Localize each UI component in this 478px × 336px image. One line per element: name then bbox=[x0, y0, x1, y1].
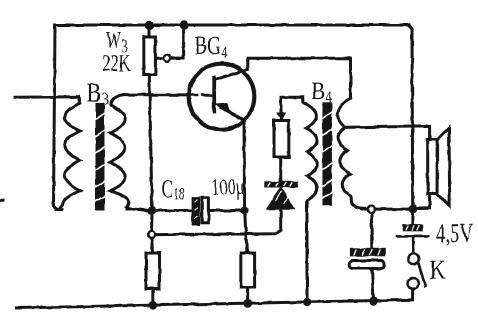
wire terminal to right rail bbox=[375, 208, 409, 211]
node terminal open circle bbox=[368, 206, 375, 213]
transistor BG4 base bar bbox=[212, 78, 216, 112]
potentiometer W3 body bbox=[148, 29, 151, 37]
capacitor C18 left plate bbox=[192, 198, 199, 225]
battery cell long plate bbox=[397, 235, 428, 238]
transformer B3 secondary winding bbox=[110, 95, 130, 209]
wire right rail vertical bbox=[409, 25, 413, 207]
node right rail junction dot bbox=[409, 205, 418, 214]
wire resistor to diode bbox=[279, 157, 282, 181]
wire emitter node down bbox=[245, 214, 247, 253]
label 100u bbox=[213, 179, 244, 199]
wire speaker top lead bbox=[345, 126, 430, 139]
switch K lever bbox=[418, 263, 425, 287]
node rail dot capacitor bbox=[369, 297, 378, 306]
wire B4 secondary bottom lead bbox=[306, 206, 309, 303]
wire speaker bottom lead bbox=[416, 194, 430, 209]
label C18 bbox=[162, 180, 184, 199]
label K bbox=[430, 261, 445, 279]
switch K upper contact bbox=[408, 253, 419, 264]
wire electrolytic bottom lead bbox=[372, 269, 374, 302]
node open circle on bias branch bbox=[148, 231, 155, 238]
wire C18 right bbox=[209, 209, 241, 212]
transistor BG4 emitter lead with arrow bbox=[221, 108, 245, 208]
transformer B3 primary winding bbox=[56, 104, 80, 210]
speaker cone bbox=[437, 128, 450, 206]
label BG4 bbox=[195, 37, 227, 58]
wire switch to bottom rail bbox=[411, 289, 414, 300]
wire B3 secondary bottom to bias node bbox=[127, 209, 148, 211]
wire B4 bottom to terminal bbox=[362, 207, 368, 210]
wire C18 left bbox=[156, 209, 192, 212]
node rail dot left bbox=[148, 301, 157, 310]
capacitor C18 right plate bbox=[202, 198, 209, 223]
wire to bottom rail bbox=[246, 287, 249, 303]
wire bias node down bbox=[152, 214, 153, 253]
capacitor electrolytic bottom plate bbox=[349, 261, 384, 269]
resistor bias (middle) body bbox=[274, 121, 289, 158]
node emitter junction dot bbox=[241, 207, 249, 215]
battery cell short bar bbox=[411, 213, 414, 225]
wire battery to switch bbox=[412, 238, 415, 253]
node rail dot B4 bbox=[303, 298, 312, 307]
label 22K bbox=[103, 55, 130, 71]
wire input line bbox=[15, 97, 80, 104]
wire bottom ground rail bbox=[16, 300, 413, 308]
transistor BG4 circle bbox=[189, 64, 255, 130]
label B3 bbox=[87, 84, 108, 105]
transformer B4 primary (right) winding bbox=[338, 98, 362, 209]
wire electrolytic top lead bbox=[370, 213, 373, 249]
wire base lead bbox=[124, 93, 188, 96]
wire collector top horizontal bbox=[247, 58, 350, 98]
wire top supply rail bbox=[55, 24, 409, 27]
wire bracket from resistor to B4 bbox=[281, 97, 303, 120]
label B4 bbox=[312, 83, 332, 102]
transistor BG4 collector lead bbox=[216, 60, 248, 80]
node top rail dot at W3 bbox=[145, 21, 154, 30]
diode cathode bar bbox=[265, 182, 297, 187]
diode triangle bbox=[267, 188, 294, 209]
wire left vertical branch bbox=[54, 27, 63, 210]
node wiper contact circle bbox=[164, 55, 171, 62]
wire margin tick bbox=[0, 199, 3, 202]
capacitor electrolytic top plate bbox=[351, 249, 385, 256]
transformer B4 secondary (left) winding bbox=[303, 102, 317, 206]
switch K lower contact bbox=[408, 278, 419, 289]
node bias junction dot bbox=[148, 206, 156, 214]
resistor lower-left body bbox=[146, 253, 160, 289]
label W3 bbox=[106, 32, 127, 52]
transformer B4 core bbox=[322, 107, 332, 201]
node top rail dot 2 bbox=[179, 21, 188, 30]
wire diode bottom lead bbox=[155, 209, 281, 235]
label 4.5V bbox=[436, 224, 473, 246]
node rail dot emitter bbox=[243, 299, 252, 308]
potentiometer W3 wiper wire bbox=[157, 29, 184, 58]
wire resistor to bottom rail bbox=[151, 289, 154, 305]
speaker coil rectangle bbox=[428, 139, 437, 194]
resistor emitter body bbox=[241, 253, 255, 287]
transformer B3 core bbox=[96, 108, 105, 207]
